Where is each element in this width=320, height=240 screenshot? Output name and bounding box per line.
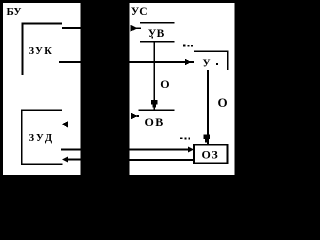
block ZUD box (bottom edge) <box>21 163 63 165</box>
wire B tail (left part) <box>67 159 81 161</box>
arrow OV tail nub <box>137 115 140 117</box>
dots after UV <box>183 45 186 47</box>
svg-text:У: У <box>203 58 211 70</box>
arrow down into OZ <box>204 135 210 139</box>
svg-text:УС: УС <box>131 6 148 18</box>
svg-text:О: О <box>218 95 228 110</box>
svg-text:ЗУД: ЗУД <box>29 133 55 144</box>
block BU (control unit) white box <box>3 3 81 175</box>
arrow right into UV tail nub <box>136 27 141 29</box>
dots before OZ <box>180 137 183 139</box>
wire 1 from ZUK to US <box>62 27 81 29</box>
wire A from ZUD to OZ (left part) <box>61 149 81 151</box>
block ZUD box (left edge) <box>21 109 23 164</box>
svg-text:ЗУК: ЗУК <box>29 46 54 57</box>
arrow right into U <box>185 59 192 65</box>
block ZUK bracket (left edge) <box>22 23 24 76</box>
wire B in US from OZ <box>130 159 195 161</box>
element UV overline <box>140 22 175 24</box>
block US (interface unit) white box <box>130 3 235 175</box>
svg-text:ОВ: ОВ <box>145 115 165 129</box>
arrow tail nub into U <box>190 61 194 63</box>
svg-text:О: О <box>160 77 169 91</box>
wire A in US to OZ <box>130 149 189 151</box>
svg-text:БУ: БУ <box>7 6 22 18</box>
block ZUK bracket (top edge) <box>22 23 63 25</box>
arrow left into ZUD (floating) <box>62 121 68 127</box>
vertical wire from U down to OZ <box>207 70 209 136</box>
svg-text:ОЗ: ОЗ <box>202 148 219 162</box>
block ZUD box (top edge) <box>21 109 62 111</box>
arrow down into OV <box>151 100 158 104</box>
wire 2 horizontal in US <box>130 61 187 63</box>
block OZ rectangle <box>194 145 228 164</box>
element U right edge <box>227 50 229 70</box>
arrow left into ZUD lower <box>62 157 68 163</box>
svg-text:УВ: УВ <box>148 28 165 40</box>
element U top line <box>194 50 229 52</box>
element OV overline <box>139 109 175 111</box>
arrow right into OV (floating) <box>131 113 138 120</box>
element UV underline <box>140 41 175 43</box>
label U index dot <box>216 63 218 65</box>
arrow right into OZ <box>188 146 194 152</box>
wire 2 from ZUK to amplifier U <box>59 61 81 63</box>
vertical wire from UV down <box>153 42 155 102</box>
arrow right into UV <box>131 25 138 32</box>
